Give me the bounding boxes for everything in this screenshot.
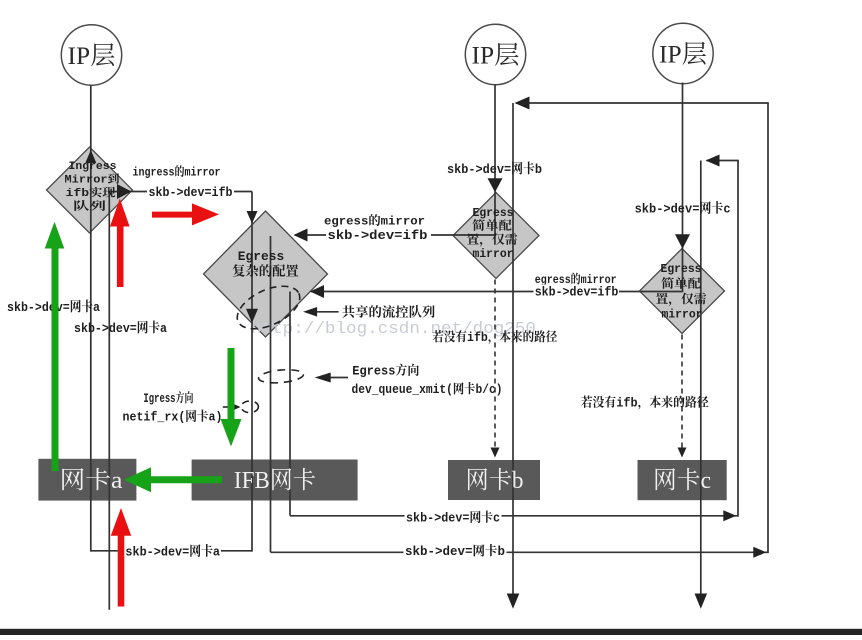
svg-text:mirror: mirror [473, 247, 514, 261]
arrow: big green up (re-inject to card a path) [45, 222, 65, 471]
arrowhead: down into D2 top [247, 211, 258, 224]
svg-text:置，仅需: 置，仅需 [467, 231, 518, 247]
node: IP layer circle 3 [653, 23, 713, 83]
svg-text:netif_rx(网卡a): netif_rx(网卡a) [123, 409, 223, 425]
arrowhead: down bottom of c original path [695, 594, 708, 609]
wire: pointer line from netif_rx label [223, 406, 233, 408]
svg-text:skb->dev=网卡b: skb->dev=网卡b [447, 161, 542, 177]
wire: D3 internal corner and egress mirror line to D2 [295, 193, 495, 236]
label: D2 text [232, 249, 299, 280]
svg-text:Igress方向: Igress方向 [143, 390, 193, 406]
svg-text:简单配: 简单配 [661, 276, 701, 292]
arrowhead: right at c-line corner [723, 510, 736, 521]
node: network card a box [38, 459, 136, 501]
arrowhead: down dashed into card b [491, 448, 500, 458]
svg-text:skb->dev=ifb: skb->dev=ifb [149, 185, 233, 200]
arrowhead: down dashed into card c [678, 448, 687, 458]
arrowhead: left c-loop into original path [706, 155, 720, 167]
svg-text:skb->dev=网卡b: skb->dev=网卡b [405, 543, 505, 559]
svg-text:Egress: Egress [473, 206, 514, 220]
svg-text:网卡b: 网卡b [466, 467, 524, 494]
svg-text:Mirror到: Mirror到 [65, 172, 120, 187]
wire: c-loop top horizontal [707, 160, 739, 162]
svg-text:Egress: Egress [661, 262, 702, 276]
svg-text:共享的流控队列: 共享的流控队列 [342, 305, 436, 321]
svg-text:skb->dev=网卡c: skb->dev=网卡c [406, 510, 500, 526]
svg-text:mirror: mirror [662, 308, 703, 322]
svg-text:复杂的配置: 复杂的配置 [232, 264, 299, 280]
node: IP layer circle 1 [61, 25, 121, 85]
arrowhead: right at b-line corner [753, 547, 766, 558]
svg-text:置，仅需: 置，仅需 [656, 291, 707, 307]
node: diamond D3 egress simple b [453, 193, 539, 279]
node: network card b box [448, 460, 540, 500]
label: D1 text [65, 161, 120, 214]
wire: b original path down through D3 [512, 103, 514, 606]
svg-text:ifb实现: ifb实现 [66, 186, 116, 200]
dashed ellipse: ingress direction queue [241, 401, 258, 413]
svg-text:若没有ifb，本来的路径: 若没有ifb，本来的路径 [581, 395, 709, 411]
node: IP layer circle 2 [465, 24, 525, 84]
wire: IP1 down through D1 and card a to return line [90, 86, 92, 552]
label: skb->dev=ifb on D1 output [147, 184, 234, 198]
arrowhead: right exiting D1 [117, 184, 132, 199]
wire: pointer line to egress direction ellipse [330, 377, 348, 379]
arrow: big red up 2 (packet arrives card a) [111, 508, 131, 607]
svg-text:skb->dev=网卡a: skb->dev=网卡a [74, 320, 167, 336]
wire: b-queue drop x270 [270, 236, 272, 552]
svg-text:IP层: IP层 [68, 42, 116, 70]
svg-text:dev_queue_xmit(网卡b/c): dev_queue_xmit(网卡b/c) [352, 381, 503, 397]
arrow: big red up 1 (ingress into D1) [110, 199, 130, 288]
arrowhead: down from IP3 into D4 [675, 234, 690, 249]
wire: c original path down through D4 [700, 161, 702, 607]
arrow: big green down into IFB [221, 348, 242, 447]
dashed ellipse: shared traffic-control queue [231, 277, 307, 337]
svg-text:IFB网卡: IFB网卡 [234, 467, 316, 494]
arrowhead: left egress mirror c into D2 [310, 285, 324, 298]
label: D3 text [467, 206, 518, 261]
svg-text:Ingress: Ingress [69, 161, 117, 173]
wire: pointer line to shared queue ellipse [317, 311, 339, 313]
wire: ingress redirect riser x109 [108, 192, 110, 610]
wire: skb->dev=ifb horizontal from D1 [109, 191, 252, 193]
arrowhead: left egress mirror b into D2 [294, 229, 308, 242]
wire: c-line horizontal skb->dev=card c [290, 515, 738, 517]
svg-text:skb->dev=ifb: skb->dev=ifb [328, 228, 428, 243]
arrowhead: down from IP2 into D3 [488, 178, 503, 192]
svg-text:skb->dev=网卡c: skb->dev=网卡c [635, 201, 731, 217]
wire: b-loop right riser [767, 103, 769, 553]
wire: a-return horizontal skb->dev=card a [91, 550, 252, 552]
node: diamond D1 ingress mirror [47, 147, 133, 233]
svg-text:若没有ifb，本来的路径: 若没有ifb，本来的路径 [432, 329, 557, 345]
dashed ellipse: egress direction queue [258, 368, 304, 384]
svg-text:简单配: 简单配 [472, 218, 512, 234]
node: IFB card box [192, 460, 358, 501]
arrowhead: left pointer to shared queue [303, 307, 317, 317]
arrowhead: left pointer to egress ellipse [315, 373, 331, 383]
label: skb->dev=card b on b-line [404, 545, 507, 558]
wire: dashed original route to card c [681, 335, 683, 451]
label: skb->dev=ifb on D3 output [326, 228, 431, 242]
svg-text:IP层: IP层 [472, 42, 520, 70]
arrowhead: down bottom of b original path [507, 594, 520, 609]
wire: c-loop right riser [737, 161, 739, 517]
svg-text:Egress方向: Egress方向 [352, 363, 419, 379]
wire: c-queue drop x290 [289, 292, 291, 516]
wire: b-line horizontal skb->dev=card b [271, 551, 769, 553]
svg-text:队列: 队列 [73, 199, 106, 214]
wire: IP3 stem down to D4 [682, 83, 684, 250]
label: D4 text [656, 262, 707, 322]
node: diamond D2 egress complex [204, 211, 328, 337]
svg-text:egress的mirror: egress的mirror [324, 213, 425, 229]
svg-text:skb->dev=ifb: skb->dev=ifb [535, 286, 619, 300]
node: diamond D4 egress simple c [640, 249, 725, 334]
wire: IP2 stem down to D3 [494, 85, 496, 193]
arrow: big green left IFB to card a [124, 467, 222, 492]
arrowhead: right pointer from netif_rx [232, 403, 241, 411]
svg-text:IP层: IP层 [659, 41, 707, 69]
wire: dashed original route to card b [494, 280, 496, 451]
svg-text:ingress的mirror: ingress的mirror [133, 164, 221, 180]
node: network card c box [638, 460, 727, 500]
svg-text:skb->dev=网卡a: skb->dev=网卡a [125, 544, 220, 560]
arrowhead: down at D2 bottom queue [246, 309, 258, 323]
arrow: big red right (redirect to ifb) [152, 203, 219, 225]
svg-text:网卡a: 网卡a [60, 467, 123, 494]
wire: D4 internal corner and egress mirror line to D2 [311, 249, 683, 292]
label: skb->dev=card a on return line [124, 544, 221, 558]
wire: b-loop top horizontal [516, 102, 769, 104]
wire: down into D2 and to a-return line [251, 192, 253, 552]
arrowhead: left b-loop into original path [515, 97, 530, 110]
label: skb->dev=card c on c-line [405, 510, 502, 523]
bottom dark bar [0, 629, 862, 635]
arrowhead: up inside D1 (return to IP) [85, 150, 96, 163]
svg-text:Egress: Egress [238, 249, 285, 264]
label: skb->dev=ifb on D4 output [534, 285, 620, 298]
svg-text:网卡c: 网卡c [653, 467, 711, 494]
